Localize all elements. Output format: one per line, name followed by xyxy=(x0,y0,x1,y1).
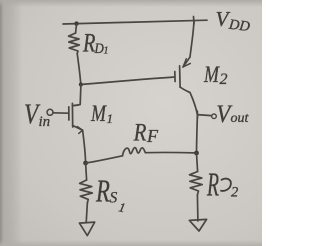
resistor RD1 xyxy=(69,33,80,54)
wire RS1 top lead xyxy=(86,163,87,180)
svg-text:R: R xyxy=(82,29,95,58)
wire RS1 bottom lead xyxy=(86,203,87,223)
node C RF junction left xyxy=(83,161,88,166)
resistor RD2 xyxy=(190,172,203,195)
wire Vout stub xyxy=(197,115,211,116)
wire RD2 bottom lead xyxy=(196,195,199,221)
node top-left junction xyxy=(74,21,78,25)
svg-text:R: R xyxy=(95,174,110,210)
label RD2 letter D open-C stroke xyxy=(221,179,231,191)
transistor M2 channel bar xyxy=(179,66,182,87)
svg-text:DD: DD xyxy=(227,17,251,36)
svg-text:2: 2 xyxy=(231,184,238,200)
transistor M2 gate bar xyxy=(174,72,176,82)
svg-text:R: R xyxy=(133,118,147,146)
svg-text:D: D xyxy=(94,41,104,57)
svg-text:M: M xyxy=(90,102,107,127)
wire node A to M2 gate xyxy=(81,77,175,85)
resistor RS1 xyxy=(80,180,93,203)
svg-text:1: 1 xyxy=(107,111,114,126)
svg-text:R: R xyxy=(206,166,219,204)
transistor M2 source lead xyxy=(180,87,197,114)
node Vout terminal circle xyxy=(212,114,217,119)
wire RF to node B xyxy=(145,151,194,153)
wire M1 source to node C xyxy=(83,130,86,163)
node top-right junction tick xyxy=(193,17,196,25)
svg-text:2: 2 xyxy=(220,71,228,88)
ground right xyxy=(189,219,206,231)
svg-text:M: M xyxy=(203,63,220,88)
node input terminal circle xyxy=(47,109,53,115)
wire RD2 top lead xyxy=(197,153,198,172)
ground left xyxy=(79,222,94,236)
wire M2 source to node B xyxy=(196,115,199,153)
wire RD1 top lead xyxy=(75,24,78,33)
node Vout junction xyxy=(196,111,198,118)
transistor M1 channel bar xyxy=(71,103,73,127)
svg-text:F: F xyxy=(146,126,159,146)
wire RD1 bottom lead xyxy=(77,54,81,85)
node A drain of M1 xyxy=(79,82,83,86)
transistor M1 drain lead xyxy=(73,85,81,106)
wire Vin to M1 gate xyxy=(53,112,68,114)
wire node C to RF xyxy=(86,156,123,163)
resistor RF xyxy=(123,148,146,156)
transistor M1 source lead with arrow xyxy=(73,126,83,131)
svg-text:1: 1 xyxy=(104,46,109,57)
svg-text:out: out xyxy=(231,111,250,126)
svg-text:S: S xyxy=(110,189,118,206)
transistor M1 gate bar xyxy=(68,107,70,120)
wire top VDD rail xyxy=(63,20,207,24)
node B RF junction right xyxy=(194,151,199,156)
svg-text:in: in xyxy=(39,114,51,130)
transistor M2 drain lead with arrow xyxy=(183,20,194,67)
